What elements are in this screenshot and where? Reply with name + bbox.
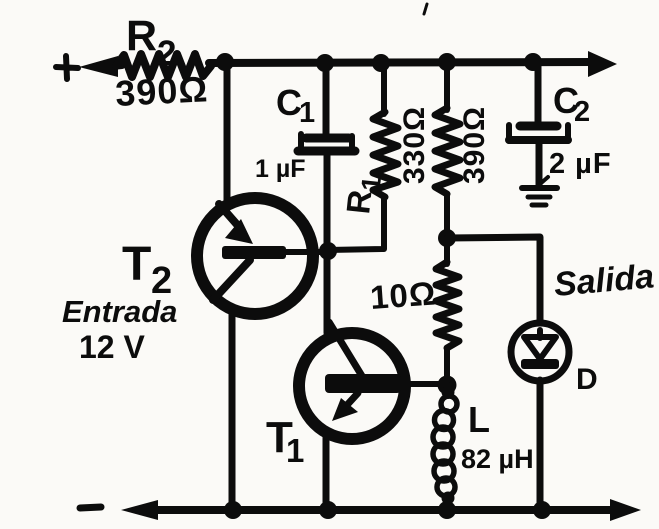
- label R1 (rotated): [339, 173, 387, 216]
- node base junction (328,251): [319, 242, 337, 260]
- svg-text:1: 1: [286, 432, 304, 469]
- svg-text:Entrada: Entrada: [62, 294, 177, 329]
- node junction bottom x=446: [438, 501, 456, 519]
- svg-text:390Ω: 390Ω: [458, 106, 491, 184]
- wire C1 branch upper: [323, 62, 330, 134]
- node T1 base junction (447,385): [438, 376, 457, 395]
- node junction top x=225: [216, 53, 234, 71]
- svg-text:T: T: [122, 238, 151, 291]
- T1 collector line: [329, 322, 362, 376]
- svg-text:1 µF: 1 µF: [255, 155, 306, 183]
- svg-text:R: R: [126, 12, 157, 60]
- transistor T1: [299, 322, 447, 439]
- node junction bottom x=233: [224, 501, 242, 519]
- stray ink mark: [424, 4, 427, 14]
- node junction bottom x=542: [533, 501, 551, 519]
- wire 390 ohm branch top: [444, 62, 450, 110]
- inductor L coil: [433, 385, 457, 510]
- wire R1 bottom to base node: [327, 196, 384, 250]
- wire top rail right arrow: [588, 51, 617, 77]
- label R2: [126, 12, 176, 73]
- label C1: [276, 82, 315, 129]
- T1 emitter arrow: [347, 393, 358, 405]
- svg-text:12 V: 12 V: [79, 329, 145, 365]
- node junction top x=533: [524, 53, 542, 71]
- wire node to LED column: [447, 237, 540, 322]
- T2 base bar: [222, 246, 286, 259]
- svg-text:D: D: [576, 363, 598, 396]
- wire R1 branch top: [381, 62, 387, 114]
- svg-text:1: 1: [299, 97, 315, 129]
- svg-text:330Ω: 330Ω: [398, 106, 431, 184]
- wire 390 ohm bottom to node: [444, 195, 450, 240]
- node junction top x=380: [372, 54, 390, 72]
- svg-text:82 µH: 82 µH: [461, 444, 534, 474]
- svg-text:2 µF: 2 µF: [549, 148, 612, 180]
- wire 10 ohm top: [444, 238, 450, 264]
- svg-text:2: 2: [574, 96, 590, 128]
- resistor R1: [373, 112, 398, 197]
- wire top rail left arrow: [79, 56, 122, 77]
- T1 base bar: [325, 374, 401, 393]
- T2 emitter line: [213, 260, 250, 300]
- wire C1 to T1 collector / base node: [324, 155, 331, 333]
- transistor T2: [197, 198, 330, 314]
- wire top rail: [209, 62, 592, 63]
- wire bottom rail: [150, 506, 612, 514]
- wire bottom rail left arrow: [121, 500, 158, 520]
- node junction (447,238): [438, 229, 456, 247]
- resistor R2: [116, 54, 211, 77]
- resistor 10 ohm: [436, 262, 459, 348]
- svg-text:1: 1: [356, 175, 387, 193]
- wire 10 ohm bottom to T1 base node: [444, 348, 450, 385]
- node - (negative supply): [80, 507, 101, 508]
- label T1: [266, 413, 304, 469]
- svg-text:L: L: [468, 399, 490, 440]
- ground: [522, 177, 557, 205]
- node junction bottom x=328: [319, 501, 337, 519]
- node junction top x=446: [438, 53, 456, 71]
- wire C2 to ground: [536, 143, 543, 187]
- resistor 390 ohm: [435, 108, 460, 194]
- label T2: [122, 238, 172, 302]
- wire T1 emitter to bottom rail: [323, 437, 330, 510]
- capacitor C2 branch wire: [535, 62, 542, 125]
- label C2: [553, 80, 590, 128]
- T2 base line to node: [286, 249, 330, 255]
- wire T2 collector from rail: [224, 62, 231, 200]
- svg-text:390Ω: 390Ω: [114, 68, 209, 114]
- T2 collector arrow: [219, 204, 240, 228]
- wire T2 emitter to bottom rail: [229, 311, 236, 510]
- svg-text:10Ω: 10Ω: [369, 274, 438, 316]
- T1 base line to node: [401, 381, 447, 387]
- svg-text:2: 2: [157, 34, 176, 73]
- node + (positive supply terminal): [56, 56, 78, 79]
- node junction top x=324: [316, 54, 334, 72]
- wire LED to bottom rail: [537, 380, 544, 510]
- capacitor C2: [509, 125, 568, 141]
- wire bottom rail right arrow: [610, 499, 641, 521]
- capacitor C1: [298, 134, 355, 151]
- diode D (LED): [511, 323, 569, 381]
